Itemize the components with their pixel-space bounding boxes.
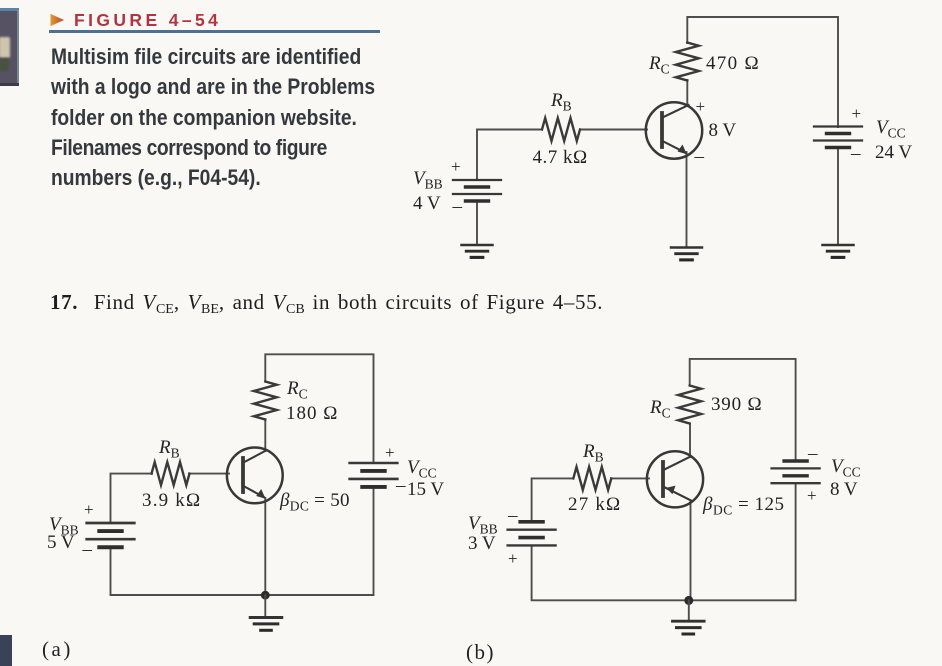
ground (VCC branch) <box>823 245 854 257</box>
svg-text:(a): (a) <box>42 637 73 661</box>
svg-text:–: – <box>807 443 818 464</box>
svg-text:8 V: 8 V <box>830 479 858 500</box>
svg-text:+: + <box>508 549 518 568</box>
resistor RC 180 (a) <box>254 382 277 420</box>
svg-text:+: + <box>807 486 817 505</box>
problem 17 text <box>50 290 603 315</box>
battery VCC 24V <box>814 127 862 148</box>
wire: RB right to base (b) <box>611 477 649 479</box>
wire: ground stem (a) <box>264 595 266 617</box>
svg-text:+: + <box>385 443 395 462</box>
wire: RC top / top rail / down to VCC battery <box>687 17 838 127</box>
wire: VCC battery bottom to ground <box>837 148 839 245</box>
wire: VBB top to RB left (base net a) <box>111 474 153 523</box>
svg-text:4.7 kΩ: 4.7 kΩ <box>533 147 588 168</box>
svg-text:390 Ω: 390 Ω <box>711 394 762 415</box>
svg-text:–: – <box>395 475 406 496</box>
bottom-left navy square <box>0 635 12 666</box>
svg-text:RB: RB <box>158 437 180 461</box>
svg-text:24 V: 24 V <box>875 142 912 163</box>
svg-text:5 V: 5 V <box>47 532 75 553</box>
ground (a) <box>250 618 282 631</box>
svg-text:VCC: VCC <box>831 456 861 480</box>
transistor Q (pnp, b) <box>647 451 703 507</box>
wire: emitter down to bottom rail (b) <box>690 501 692 600</box>
svg-text:–: – <box>507 505 518 526</box>
wire: RC top / top rail / down to VCC (a) <box>265 354 373 463</box>
transistor Q (npn, a) <box>227 448 283 504</box>
svg-text:RC: RC <box>648 53 670 77</box>
wire: VBB top to RB left (base net b) <box>532 478 574 521</box>
svg-text:RC: RC <box>286 378 308 402</box>
svg-text:+: + <box>852 104 862 123</box>
resistor RC 390 (b) <box>678 386 701 424</box>
node: emitter/ground junction (a) <box>261 591 270 600</box>
caption paragraph <box>51 42 375 193</box>
figure callout arrow <box>50 13 65 27</box>
wire: collector vertical to RC bottom (a) <box>264 420 266 451</box>
wire: VBB battery bottom to ground <box>476 201 478 245</box>
battery VBB 3V (b, reversed) <box>508 522 556 546</box>
wire: RB right to base (a) <box>189 473 229 475</box>
svg-text:VCC: VCC <box>876 117 906 141</box>
transistor Q (npn) <box>646 102 702 158</box>
svg-text:RB: RB <box>550 90 572 114</box>
resistor RB 3.9k (a) <box>152 462 190 485</box>
resistor RB 27k (b) <box>573 467 611 490</box>
wire: VBB battery bottom + bottom rail (b) <box>532 546 796 601</box>
battery VBB 5V (a) <box>87 523 135 547</box>
svg-text:+: + <box>84 500 94 519</box>
svg-text:βDC = 50: βDC = 50 <box>279 490 350 514</box>
node: emitter/ground junction (b) <box>684 596 693 605</box>
wire: collector vertical to RC bottom (b) <box>689 424 691 457</box>
svg-text:βDC = 125: βDC = 125 <box>702 494 784 518</box>
ground (b) <box>673 621 705 634</box>
battery VCC 8V (b, reversed) <box>772 461 820 483</box>
svg-text:(b): (b) <box>466 640 495 664</box>
wire: VCC battery bottom to bottom rail (b) <box>795 484 797 601</box>
svg-text:–: – <box>452 196 463 217</box>
svg-text:RC: RC <box>649 397 671 421</box>
svg-text:–: – <box>850 143 861 164</box>
battery VCC 15V (a) <box>350 463 398 487</box>
svg-text:+: + <box>451 157 461 176</box>
svg-text:180 Ω: 180 Ω <box>286 403 338 424</box>
ground (VBB branch) <box>462 245 493 257</box>
svg-text:15 V: 15 V <box>407 479 444 500</box>
battery VBB 4V <box>453 180 501 201</box>
ground (emitter) <box>671 248 702 260</box>
svg-text:VCC: VCC <box>407 457 437 481</box>
svg-text:–: – <box>694 146 705 167</box>
wire: ground stem (b) <box>688 600 690 621</box>
photo thumbnail (left margin) <box>0 8 19 86</box>
caption: FIGURE 4-54 <box>74 10 221 31</box>
svg-text:3 V: 3 V <box>468 533 496 554</box>
wire: RC top / top rail / down to VCC (b) <box>690 359 796 461</box>
svg-text:+: + <box>696 97 706 116</box>
wire: VBB top to RB left (base net) <box>477 130 542 181</box>
resistor RC (470) <box>676 43 699 81</box>
resistor RB (4.7 k) <box>542 118 580 141</box>
wire: emitter down to bottom rail (a) <box>264 498 266 595</box>
svg-text:4 V: 4 V <box>413 193 441 214</box>
wire: collector vertical to RC bottom <box>686 80 688 106</box>
wire: RB right to transistor base <box>580 129 647 131</box>
svg-text:8 V: 8 V <box>709 120 737 141</box>
wire: VBB battery bottom + bottom rail (a) <box>111 548 374 596</box>
svg-text:27 kΩ: 27 kΩ <box>568 494 621 515</box>
svg-text:3.9 kΩ: 3.9 kΩ <box>142 490 201 511</box>
svg-text:VBB: VBB <box>413 168 443 192</box>
svg-text:RB: RB <box>582 441 604 465</box>
wire: VCC battery bottom to bottom rail (a) <box>373 488 375 596</box>
svg-text:–: – <box>82 539 93 560</box>
rule under caption <box>49 30 380 33</box>
svg-text:470 Ω: 470 Ω <box>706 53 760 74</box>
wire: emitter down to ground <box>686 152 688 247</box>
